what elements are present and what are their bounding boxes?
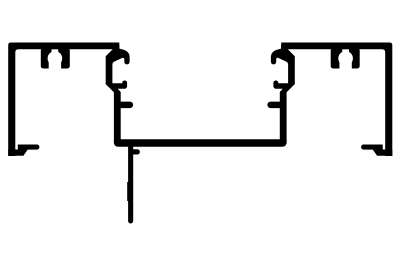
left half of profile — [8, 43, 133, 157]
tail fin tick — [133, 149, 140, 154]
channel bottom bar — [114, 139, 287, 147]
bottom tail fin — [128, 140, 133, 223]
right half of profile (mirrored) — [267, 43, 392, 157]
tail fin bulge — [127, 182, 129, 201]
